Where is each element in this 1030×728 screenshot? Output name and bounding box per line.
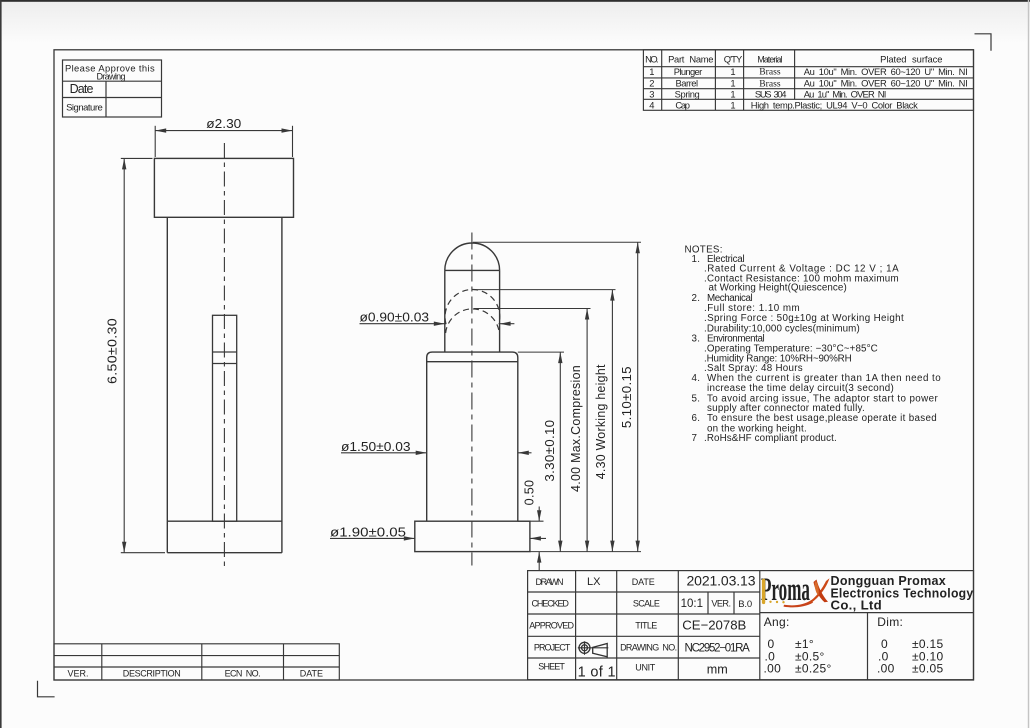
svg-text:4.: 4. <box>692 373 701 384</box>
svg-text:B.0: B.0 <box>738 599 752 610</box>
left view cap <box>154 158 293 217</box>
svg-text:5.: 5. <box>692 393 701 404</box>
svg-text:1: 1 <box>730 66 735 77</box>
promax logo <box>761 571 830 607</box>
svg-text:PROJECT: PROJECT <box>534 642 571 652</box>
parts table row 2 barrel <box>649 78 967 90</box>
dimension dia 2.30 <box>155 126 292 157</box>
svg-text:3: 3 <box>649 89 654 100</box>
svg-text:2: 2 <box>649 78 654 89</box>
svg-text:3.: 3. <box>692 333 701 344</box>
svg-text:UNIT: UNIT <box>635 663 656 673</box>
svg-text:VER.: VER. <box>711 598 731 608</box>
extension line barrel top <box>518 351 564 353</box>
front view base flange <box>415 521 530 551</box>
scan left edge <box>0 0 2 728</box>
svg-text:DRAWN: DRAWN <box>536 577 564 587</box>
svg-text:ø1.50±0.03: ø1.50±0.03 <box>341 439 411 454</box>
svg-text:4: 4 <box>649 99 654 110</box>
dimension line 4.30 <box>610 290 614 552</box>
notes text block <box>685 245 942 444</box>
dimension line 3.30 <box>558 352 562 551</box>
svg-text:1.: 1. <box>692 254 701 265</box>
left view barrel <box>167 217 282 552</box>
svg-text:Co., Ltd: Co., Ltd <box>831 598 882 613</box>
dimension text 3.30 <box>543 420 557 482</box>
svg-text:NC2952−01RA: NC2952−01RA <box>685 643 751 655</box>
dimension line 4.00 <box>585 309 589 552</box>
svg-text:±0.05: ±0.05 <box>912 661 943 675</box>
dimension dia 1.50 leader <box>341 451 532 455</box>
front view barrel <box>427 352 518 521</box>
svg-text:Q'TY: Q'TY <box>724 53 743 64</box>
svg-text:CE−2078B: CE−2078B <box>682 618 746 633</box>
svg-text:NO.: NO. <box>645 53 659 64</box>
front view centerline <box>471 233 473 566</box>
svg-text:1 of 1: 1 of 1 <box>578 664 616 680</box>
svg-text:2021.03.13: 2021.03.13 <box>687 573 756 589</box>
svg-text:DATE: DATE <box>632 577 655 587</box>
svg-text:Brass: Brass <box>759 67 781 78</box>
svg-text:SCALE: SCALE <box>633 599 660 609</box>
svg-text:1: 1 <box>730 78 735 89</box>
front view plunger dome <box>445 243 500 352</box>
svg-text:10:1: 10:1 <box>681 598 703 610</box>
svg-text:Ang:: Ang: <box>764 615 790 629</box>
scan top edge <box>0 0 1030 2</box>
svg-text:7: 7 <box>692 433 698 444</box>
svg-text:±0.25°: ±0.25° <box>795 661 832 675</box>
svg-text:1: 1 <box>649 66 654 77</box>
dimension text 6.50 <box>105 318 120 384</box>
svg-text:Cap: Cap <box>675 99 690 110</box>
svg-text:Barrel: Barrel <box>675 78 698 89</box>
left view centerline <box>223 143 225 568</box>
svg-text:Drawing: Drawing <box>96 72 125 82</box>
dashed arc max compression <box>446 309 500 333</box>
svg-text:Plated surface: Plated surface <box>880 53 942 64</box>
svg-text:LX: LX <box>587 576 601 588</box>
extension line base bottom <box>530 551 641 553</box>
svg-text:APPROVED: APPROVED <box>529 621 574 631</box>
dimension dia 1.90 leader <box>330 536 546 540</box>
svg-text:TITLE: TITLE <box>635 621 657 631</box>
dimension 6.50 <box>121 158 165 552</box>
svg-text:4.00 Max.Compresion: 4.00 Max.Compresion <box>569 365 583 492</box>
svg-text:.RoHs&HF compliant product.: .RoHs&HF compliant product. <box>704 433 837 444</box>
extension line working height arc <box>474 289 616 291</box>
svg-text:DESCRIPTION: DESCRIPTION <box>123 669 181 679</box>
title block value texts <box>578 573 756 681</box>
parts table header text <box>645 53 942 64</box>
approval table text <box>65 63 155 114</box>
svg-text:2.: 2. <box>692 293 701 304</box>
svg-text:3.30±0.10: 3.30±0.10 <box>543 420 557 482</box>
svg-text:ECN NO.: ECN NO. <box>225 669 261 679</box>
revision table <box>54 644 339 680</box>
svg-text:Dim:: Dim: <box>877 615 903 629</box>
svg-text:ø1.90±0.05: ø1.90±0.05 <box>330 524 406 539</box>
svg-text:Au 10u" Min. OVER 60~120 U" Mi: Au 10u" Min. OVER 60~120 U" Min. NI <box>804 78 968 89</box>
svg-text:CHECKED: CHECKED <box>532 599 570 609</box>
svg-text:0.50: 0.50 <box>522 480 536 506</box>
dimension text 5.10 <box>620 366 634 428</box>
svg-text:1: 1 <box>730 99 735 110</box>
svg-text:.00: .00 <box>764 661 782 675</box>
revision table text <box>67 669 323 679</box>
svg-text:Plunger: Plunger <box>674 66 702 77</box>
dimension line 5.10 <box>636 242 640 551</box>
dashed arc working height <box>445 289 500 324</box>
parts table grid <box>643 50 973 111</box>
svg-text:Material: Material <box>757 54 782 64</box>
dimension 0.50 <box>518 507 544 571</box>
drawing frame border <box>54 50 974 680</box>
svg-text:Spring: Spring <box>675 89 700 100</box>
parts table row 3 spring <box>649 89 886 100</box>
svg-text:Au 10u" Min. OVER 60~120 U" Mi: Au 10u" Min. OVER 60~120 U" Min. NI <box>804 66 968 77</box>
extension line dome top <box>473 241 641 243</box>
svg-text:Date: Date <box>70 82 94 96</box>
dimension text dia 0.90 <box>360 310 430 325</box>
corner mark top-right <box>975 34 992 51</box>
dimension text 4.00 max compression <box>569 365 583 492</box>
corner mark bottom-left <box>38 681 55 697</box>
svg-text:SHEET: SHEET <box>538 662 565 672</box>
svg-text:6.: 6. <box>692 413 701 424</box>
svg-text:6.50±0.30: 6.50±0.30 <box>105 318 120 384</box>
parts table row 4 cap <box>649 99 918 110</box>
extension line max compression arc <box>474 308 591 310</box>
left view inner plunger pin <box>213 315 237 521</box>
dimension text dia 2.30 <box>206 116 241 131</box>
company name text <box>831 573 974 612</box>
svg-text:High temp.Plastic; UL94 V−0 Co: High temp.Plastic; UL94 V−0 Color Black <box>751 99 918 110</box>
svg-text:ø2.30: ø2.30 <box>206 116 241 131</box>
title block label texts <box>529 577 677 673</box>
third angle projection symbol <box>578 641 609 657</box>
svg-text:5.10±0.15: 5.10±0.15 <box>620 366 634 428</box>
svg-text:Au 1u" Min. OVER NI: Au 1u" Min. OVER NI <box>804 89 887 100</box>
svg-text:1: 1 <box>730 89 735 100</box>
svg-text:VER.: VER. <box>67 669 88 679</box>
svg-text:SUS 304: SUS 304 <box>755 89 787 100</box>
parts table row 1 plunger <box>649 66 967 78</box>
svg-text:mm: mm <box>707 663 728 677</box>
tolerance ang column <box>764 615 832 675</box>
svg-text:Part Name: Part Name <box>668 53 713 64</box>
svg-text:DRAWING NO.: DRAWING NO. <box>620 642 677 652</box>
scan right edge <box>1028 0 1029 728</box>
tolerance dim column <box>877 615 943 675</box>
dimension text dia 1.90 <box>330 524 406 539</box>
dimension text 0.50 <box>522 480 536 506</box>
svg-text:4.30 Working height: 4.30 Working height <box>594 364 608 479</box>
dimension text dia 1.50 <box>341 439 411 454</box>
svg-text:.00: .00 <box>877 661 895 675</box>
svg-text:Proma: Proma <box>761 571 810 607</box>
title block grid <box>528 571 974 680</box>
svg-text:Signature: Signature <box>66 102 103 113</box>
approval table <box>63 60 162 117</box>
dimension dia 0.90 leader <box>360 322 515 326</box>
svg-text:DATE: DATE <box>300 669 323 679</box>
svg-text:ø0.90±0.03: ø0.90±0.03 <box>360 310 430 325</box>
dimension text 4.30 working height <box>594 364 608 479</box>
